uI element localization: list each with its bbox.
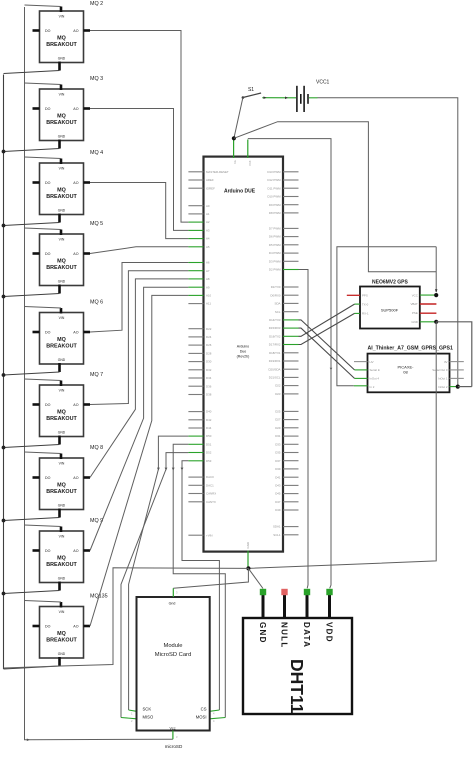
wire: GPS GND down through GSM to common ground slant <box>248 322 436 569</box>
svg-text:D41: D41 <box>275 475 281 479</box>
junction on GND bus at MQ3 <box>2 150 6 154</box>
svg-text:D18/TX1: D18/TX1 <box>269 351 281 355</box>
svg-text:MQ: MQ <box>57 631 66 637</box>
Arduino top pins 5V and 3V3 <box>233 139 252 166</box>
svg-text:A11: A11 <box>206 302 211 306</box>
gas sensor module MQ2 <box>33 1 104 71</box>
wire: Arduino D2 to DHT11 DATA <box>299 270 309 589</box>
svg-text:NEO6MV2 GPS: NEO6MV2 GPS <box>372 279 409 285</box>
GPS pin TX-0 stub <box>355 303 361 305</box>
svg-text:VCC1: VCC1 <box>316 80 330 86</box>
node: 5V junction dot <box>232 136 236 140</box>
svg-text:A10: A10 <box>206 294 212 298</box>
svg-text:D21/SCL: D21/SCL <box>269 376 281 380</box>
svg-text:D52: D52 <box>206 451 212 455</box>
wire: Arduino TX3 to GSM Serial In <box>299 320 355 370</box>
wire: Arduino 3V3 to DHT11 VDD <box>248 139 331 589</box>
node: GSM InOut2 battery junction <box>456 385 460 389</box>
svg-text:4: 4 <box>213 712 215 716</box>
svg-text:Serial Out 0: Serial Out 0 <box>432 368 448 372</box>
microSD Vcc pin stub <box>172 731 174 740</box>
gas sensor module MQ4 <box>33 150 104 223</box>
junction on GND bus at MQ9 <box>2 592 6 596</box>
svg-text:D3 PWM: D3 PWM <box>269 259 281 263</box>
svg-text:D16/TX2: D16/TX2 <box>269 334 281 338</box>
wire: MQ7 AO to A7 <box>90 271 188 405</box>
GSM module AI_Thinker_A7_GSM_GPRS_GPS1 <box>368 345 453 392</box>
svg-text:Gnd: Gnd <box>169 602 176 606</box>
wire: GND junction to DHT11 GND <box>248 568 263 588</box>
junction on GND bus at MQ8 <box>2 519 6 523</box>
wire: MQ8 AO to A8 <box>90 279 188 478</box>
svg-text:VIN: VIN <box>59 535 65 539</box>
svg-text:D29: D29 <box>275 426 281 430</box>
svg-text:D22: D22 <box>206 327 212 331</box>
wire: MQ2 GND to GND bus <box>4 71 60 74</box>
svg-text:SDA1: SDA1 <box>273 525 281 529</box>
svg-text:D33: D33 <box>275 442 281 446</box>
svg-text:MQ: MQ <box>57 410 66 416</box>
svg-text:DO: DO <box>45 624 51 628</box>
svg-text:microSD: microSD <box>165 744 183 749</box>
svg-text:D15/RX3: D15/RX3 <box>269 326 281 330</box>
svg-text:D25: D25 <box>275 410 281 414</box>
svg-text:GND: GND <box>58 209 66 213</box>
svg-text:MQ 3: MQ 3 <box>90 76 103 82</box>
wire: MQ3 GND to GND bus <box>4 149 60 152</box>
svg-text:D8 PWM: D8 PWM <box>269 211 281 215</box>
wire: switch pole down to 5V junction <box>234 98 243 139</box>
svg-text:DHT11: DHT11 <box>287 659 307 714</box>
svg-text:Module: Module <box>163 643 182 649</box>
svg-text:VIN: VIN <box>59 167 65 171</box>
svg-text:D42: D42 <box>206 418 212 422</box>
svg-text:VIN: VIN <box>59 93 65 97</box>
svg-text:MASTER-RESET: MASTER-RESET <box>206 170 229 174</box>
svg-text:DAC0: DAC0 <box>206 475 214 479</box>
svg-text:+VIN: +VIN <box>206 533 213 537</box>
DHT11 pin VDD <box>326 589 332 618</box>
wire: MQ7 GND to GND bus <box>4 445 60 448</box>
wire: MQ4 GND to GND bus <box>4 223 60 226</box>
wire: SCK green tail <box>129 710 137 711</box>
svg-text:D0/RX0: D0/RX0 <box>270 293 281 297</box>
svg-text:DO: DO <box>45 181 51 185</box>
svg-text:GND: GND <box>58 280 66 284</box>
svg-text:A3: A3 <box>206 229 210 233</box>
svg-text:VIN: VIN <box>59 610 65 614</box>
svg-text:MicroSD Card: MicroSD Card <box>155 652 191 658</box>
Arduino bottom pin GND <box>246 542 250 568</box>
svg-text:D23: D23 <box>275 392 281 396</box>
svg-text:D12 PWM: D12 PWM <box>267 178 281 182</box>
svg-text:InOut 4: InOut 4 <box>370 377 380 381</box>
svg-text:InOut 1: InOut 1 <box>438 377 448 381</box>
svg-text:D36: D36 <box>206 384 212 388</box>
svg-text:VIN: VIN <box>59 238 65 242</box>
svg-text:D53: D53 <box>206 459 212 463</box>
svg-text:SCL: SCL <box>275 310 281 314</box>
svg-text:D4 PWM: D4 PWM <box>269 251 281 255</box>
svg-text:GND: GND <box>411 320 417 324</box>
wire: 5V junction to GPS VCC rail <box>234 122 436 272</box>
svg-text:D35: D35 <box>275 451 281 455</box>
svg-text:SDA: SDA <box>275 302 281 306</box>
DHT11 pin NULL <box>281 589 287 618</box>
svg-text:3V: 3V <box>444 360 448 364</box>
svg-text:BREAKOUT: BREAKOUT <box>46 42 77 48</box>
svg-text:D44: D44 <box>206 426 212 430</box>
wire: VIN bus (left vertical power rail to microSD Vcc) <box>25 7 173 740</box>
svg-text:MQ: MQ <box>57 483 66 489</box>
gas sensor module MQ8 <box>33 445 104 518</box>
wire: MQ9 VIN to VIN bus <box>25 525 62 527</box>
svg-text:AO: AO <box>73 549 78 553</box>
svg-text:Arduino DUE: Arduino DUE <box>224 189 256 195</box>
svg-text:IOREF: IOREF <box>206 186 215 190</box>
svg-text:SUP500F: SUP500F <box>381 308 399 313</box>
GPS pin VBAT red no-connect wire <box>420 303 437 305</box>
wire: MQ5 GND to GND bus <box>4 294 60 297</box>
wire: MQ4 VIN to VIN bus <box>25 157 62 159</box>
svg-text:Vcc: Vcc <box>170 726 176 730</box>
wire: GPS GND over to right rail <box>436 322 472 387</box>
gas sensor module MQ135 <box>33 594 108 667</box>
svg-text:DATA: DATA <box>302 622 311 648</box>
svg-text:AO: AO <box>73 624 78 628</box>
wire: MOSI green tail <box>210 718 226 719</box>
svg-text:A8: A8 <box>206 277 210 281</box>
svg-text:AO: AO <box>73 252 78 256</box>
svg-text:D31: D31 <box>275 434 281 438</box>
wire: Arduino RX3 to GSM InOut4 <box>299 328 355 378</box>
svg-text:3V3: 3V3 <box>248 161 252 167</box>
svg-text:D28: D28 <box>206 352 212 356</box>
svg-text:GND: GND <box>58 135 66 139</box>
svg-text:BREAKOUT: BREAKOUT <box>46 489 77 495</box>
DHT11 pin GND <box>260 589 266 618</box>
svg-text:D26: D26 <box>206 343 212 347</box>
wire: Arduino TX2 to GPS TX-0 <box>299 304 355 336</box>
svg-text:D14/TX3: D14/TX3 <box>269 318 281 322</box>
svg-text:VCC: VCC <box>412 293 418 297</box>
svg-text:D13 PWM: D13 PWM <box>267 170 281 174</box>
junction on GND bus at MQ5 <box>2 295 6 299</box>
svg-text:(Rev2b): (Rev2b) <box>237 355 250 359</box>
svg-text:D24: D24 <box>206 335 212 339</box>
svg-text:Serial In: Serial In <box>370 368 381 372</box>
Arduino right pin stubs and pin labels <box>267 170 298 537</box>
svg-text:A6: A6 <box>206 261 210 265</box>
svg-text:GND: GND <box>58 652 66 656</box>
svg-text:D2 PWM: D2 PWM <box>269 268 281 272</box>
GPS module NEO6MV2 GPS <box>360 279 420 328</box>
node: GPS GND junction <box>434 320 438 324</box>
svg-text:SCK: SCK <box>143 707 152 712</box>
svg-text:3: 3 <box>176 735 178 739</box>
wire: MQ7 VIN to VIN bus <box>25 379 62 381</box>
svg-text:MQ: MQ <box>57 259 66 265</box>
svg-text:D30: D30 <box>206 360 212 364</box>
svg-text:DO: DO <box>45 549 51 553</box>
gas sensor module MQ6 <box>33 300 104 373</box>
svg-text:D22: D22 <box>275 384 281 388</box>
svg-text:3: 3 <box>176 591 178 595</box>
gas sensor module MQ9 <box>33 518 104 591</box>
svg-text:DAC1: DAC1 <box>206 483 214 487</box>
svg-text:2: 2 <box>131 719 133 723</box>
svg-text:MISO: MISO <box>143 715 154 720</box>
wire: MQ4 AO to A4 <box>90 183 188 239</box>
svg-text:DO: DO <box>45 330 51 334</box>
svg-text:HV: HV <box>370 360 374 364</box>
microcontroller board U1 Arduino DUE <box>204 157 284 552</box>
junction on GND bus at MQ7 <box>2 446 6 450</box>
svg-text:AO: AO <box>73 107 78 111</box>
svg-text:A1: A1 <box>206 212 210 216</box>
svg-text:D19/RX1: D19/RX1 <box>269 359 281 363</box>
svg-text:4: 4 <box>213 719 215 723</box>
wire: MQ3 VIN to VIN bus <box>25 83 62 85</box>
wire: GND junction to microSD Gnd <box>173 568 248 588</box>
svg-text:GND: GND <box>58 504 66 508</box>
svg-text:GND: GND <box>58 577 66 581</box>
svg-text:AI_Thinker_A7_GSM_GPRS_GPS1: AI_Thinker_A7_GSM_GPRS_GPS1 <box>368 345 453 351</box>
svg-text:MQ 2: MQ 2 <box>90 1 103 7</box>
wire: GND bus (far-left vertical ground rail) <box>3 75 5 670</box>
wire: MQ9 GND to GND bus <box>4 591 60 594</box>
svg-text:VIN: VIN <box>59 15 65 19</box>
svg-text:D37: D37 <box>275 459 281 463</box>
svg-text:MQ: MQ <box>57 556 66 562</box>
svg-text:DO: DO <box>45 29 51 33</box>
wire: MQ6 AO to A6 <box>90 263 188 333</box>
svg-text:DO: DO <box>45 107 51 111</box>
svg-text:S1: S1 <box>248 87 254 93</box>
svg-text:SCL1: SCL1 <box>273 533 281 537</box>
svg-text:MQ 7: MQ 7 <box>90 372 103 378</box>
wire: MQ2 VIN to VIN bus <box>25 5 62 7</box>
svg-text:CANRX: CANRX <box>206 492 216 496</box>
svg-text:08: 08 <box>403 370 408 375</box>
GSM left pin stubs <box>354 362 368 386</box>
wire: battery positive to GSM InOut2 node (right rail) <box>309 98 458 387</box>
svg-text:Due: Due <box>240 350 247 354</box>
svg-text:GND: GND <box>258 622 267 644</box>
svg-text:D6 PWM: D6 PWM <box>269 235 281 239</box>
svg-text:D34: D34 <box>206 376 212 380</box>
GPS pin PPS red no-connect wire <box>347 294 360 296</box>
GPS pin GND stub <box>420 321 436 323</box>
wire: GND junction to MQ135 GND / GND bus <box>4 568 249 668</box>
bend arrow at VIN bus corner <box>27 739 30 742</box>
svg-text:In 2: In 2 <box>370 385 375 389</box>
svg-text:GND: GND <box>58 57 66 61</box>
svg-text:VIN: VIN <box>59 389 65 393</box>
bend arrows on SPI wires <box>157 468 160 471</box>
gas sensor module MQ7 <box>33 372 104 445</box>
svg-text:VDD: VDD <box>324 622 333 643</box>
wire: MQ6 GND to GND bus <box>4 372 60 375</box>
svg-text:5V: 5V <box>233 161 237 165</box>
svg-text:TX-0: TX-0 <box>362 302 369 306</box>
gas sensor module MQ5 <box>33 221 104 294</box>
svg-text:NULL: NULL <box>279 622 288 649</box>
svg-text:D20/SDA: D20/SDA <box>268 367 280 371</box>
microSD Gnd pin stub <box>172 588 174 597</box>
wire: switch to battery positive <box>262 96 296 99</box>
wire: VCC rail vertical into GPS VCC <box>435 247 438 293</box>
switch S1 <box>242 87 262 99</box>
svg-text:A2: A2 <box>206 220 210 224</box>
svg-text:DO: DO <box>45 403 51 407</box>
DHT11 pin DATA <box>304 589 310 618</box>
svg-text:D43: D43 <box>275 484 281 488</box>
svg-text:MQ: MQ <box>57 188 66 194</box>
wire: MQ135 AO to A10 <box>90 295 188 626</box>
svg-text:MQ 4: MQ 4 <box>90 150 103 156</box>
Arduino left pin stubs and pin labels <box>188 170 228 537</box>
svg-text:D5 PWM: D5 PWM <box>269 243 281 247</box>
svg-text:D7 PWM: D7 PWM <box>269 227 281 231</box>
gas sensor module MQ3 <box>33 76 104 149</box>
svg-text:AO: AO <box>73 330 78 334</box>
svg-text:D51: D51 <box>206 442 212 446</box>
svg-text:D1/TX0: D1/TX0 <box>271 285 281 289</box>
GSM right pin stubs <box>450 362 464 387</box>
svg-text:A9: A9 <box>206 285 210 289</box>
svg-text:D50: D50 <box>206 434 212 438</box>
svg-text:Arduino: Arduino <box>237 345 249 349</box>
svg-text:D9 PWM: D9 PWM <box>269 203 281 207</box>
wire: MQ5 VIN to VIN bus <box>25 228 62 230</box>
svg-text:BREAKOUT: BREAKOUT <box>46 416 77 422</box>
wire: MQ5 AO to A5 <box>90 247 188 254</box>
GPS pin VCC stub <box>420 294 436 296</box>
svg-text:D38: D38 <box>206 393 212 397</box>
svg-text:AO: AO <box>73 181 78 185</box>
svg-text:D27: D27 <box>275 418 281 422</box>
svg-text:D10 PWM: D10 PWM <box>267 195 281 199</box>
svg-text:PPS: PPS <box>362 294 368 298</box>
wire: VCC rail branch to GSM power pin <box>337 247 436 386</box>
svg-text:MQ 8: MQ 8 <box>90 445 103 451</box>
wire: InOut2 node to right rail <box>458 386 472 388</box>
wire: Arduino D53 to microSD CS <box>182 461 219 710</box>
svg-text:A4: A4 <box>206 237 210 241</box>
svg-text:BREAKOUT: BREAKOUT <box>46 562 77 568</box>
svg-text:VBAT: VBAT <box>410 302 418 306</box>
svg-text:VIN: VIN <box>59 316 65 320</box>
svg-text:GND: GND <box>246 542 250 548</box>
wire: Arduino D50 to microSD SCK <box>129 436 189 710</box>
wire: MQ2 AO to A2 <box>90 31 188 223</box>
svg-text:AREF: AREF <box>206 178 214 182</box>
svg-text:GND: GND <box>58 358 66 362</box>
svg-text:MQ: MQ <box>57 114 66 120</box>
svg-text:PSE: PSE <box>412 311 418 315</box>
wire: MQ6 VIN to VIN bus <box>25 307 62 309</box>
svg-text:D49: D49 <box>275 508 281 512</box>
node: common GND junction below Arduino <box>246 566 250 570</box>
svg-text:BREAKOUT: BREAKOUT <box>46 265 77 271</box>
svg-text:MQ 5: MQ 5 <box>90 221 103 227</box>
sensor DHT11 <box>243 618 352 714</box>
wire: MQ8 GND to GND bus <box>4 518 60 521</box>
svg-text:MQ 6: MQ 6 <box>90 300 103 306</box>
wire: Arduino RX2 to GPS RX-1 <box>299 313 355 344</box>
svg-text:DO: DO <box>45 476 51 480</box>
svg-text:MOSI: MOSI <box>196 715 207 720</box>
svg-text:AO: AO <box>73 476 78 480</box>
svg-text:BREAKOUT: BREAKOUT <box>46 344 77 350</box>
node: GPS VCC junction <box>434 293 438 297</box>
svg-text:D32: D32 <box>206 368 212 372</box>
wire: MISO green tail <box>121 718 137 719</box>
svg-text:A5: A5 <box>206 245 210 249</box>
junction on GND bus at MQ4 <box>2 224 6 228</box>
battery VCC1 <box>297 80 330 113</box>
svg-text:1: 1 <box>131 712 133 716</box>
wire: MQ135 GND to GND bus <box>4 666 60 669</box>
svg-text:InOut 2: InOut 2 <box>438 385 448 389</box>
svg-text:CS: CS <box>201 707 207 712</box>
svg-text:D47: D47 <box>275 500 281 504</box>
wire: MQ3 AO to A3 <box>90 109 188 231</box>
svg-text:MQ: MQ <box>57 36 66 42</box>
wire: Arduino D51 to microSD MOSI <box>173 444 225 717</box>
svg-text:AO: AO <box>73 403 78 407</box>
GPS pin PSE red no-connect wire <box>420 312 437 314</box>
svg-text:D11 PWM: D11 PWM <box>268 186 282 190</box>
wire: MQ135 VIN to VIN bus <box>25 601 62 603</box>
wire: Arduino D52 to microSD MISO <box>121 453 188 718</box>
wire: MQ9 AO to A9 <box>90 287 188 550</box>
wire: MQ8 VIN to VIN bus <box>25 452 62 454</box>
svg-text:BREAKOUT: BREAKOUT <box>46 638 77 644</box>
svg-text:DO: DO <box>45 252 51 256</box>
svg-text:RX-1: RX-1 <box>362 312 369 316</box>
bend arrow on VDD wire near GSM <box>330 368 333 371</box>
microSD card module <box>137 597 210 731</box>
svg-text:CANTX: CANTX <box>206 500 216 504</box>
svg-text:D39: D39 <box>275 467 281 471</box>
svg-text:MQ: MQ <box>57 337 66 343</box>
svg-text:A0: A0 <box>206 204 210 208</box>
GPS pin RX-1 stub <box>355 312 361 314</box>
junction on GND bus at MQ6 <box>2 373 6 377</box>
svg-text:D17/RX2: D17/RX2 <box>269 343 281 347</box>
svg-text:D45: D45 <box>275 492 281 496</box>
svg-text:BREAKOUT: BREAKOUT <box>46 120 77 126</box>
svg-text:AO: AO <box>73 29 78 33</box>
svg-text:BREAKOUT: BREAKOUT <box>46 194 77 200</box>
svg-text:GND: GND <box>58 431 66 435</box>
svg-text:VIN: VIN <box>59 462 65 466</box>
svg-text:A7: A7 <box>206 269 210 273</box>
wire: CS green tail <box>210 710 220 711</box>
svg-text:D40: D40 <box>206 410 212 414</box>
